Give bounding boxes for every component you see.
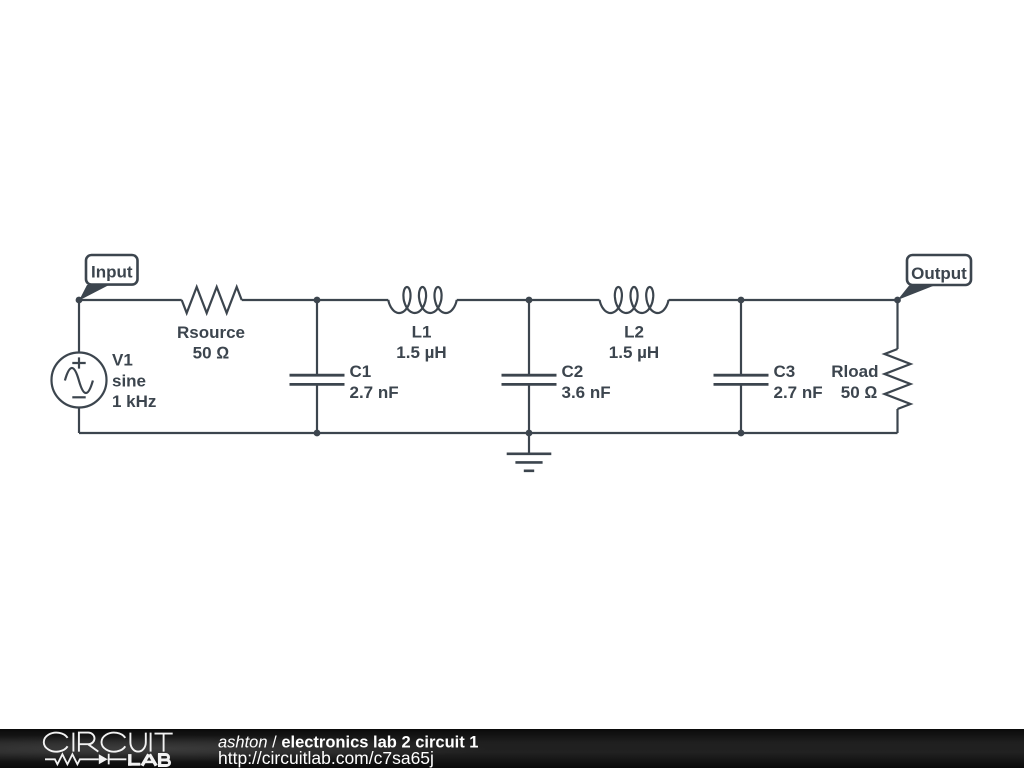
svg-text:http://circuitlab.com/c7sa65j: http://circuitlab.com/c7sa65j bbox=[218, 748, 434, 768]
capacitor C1 bottom lead bbox=[316, 385, 318, 433]
ground symbol bars bbox=[507, 454, 552, 471]
capacitor C3 top lead bbox=[740, 300, 742, 374]
inductor L2 coil bbox=[600, 287, 669, 313]
node dot input bbox=[76, 297, 83, 304]
resistor Rsource body bbox=[182, 287, 242, 313]
inductor L1 coil bbox=[388, 287, 456, 313]
node Output flag bubble bbox=[898, 255, 972, 300]
capacitor C1 top lead bbox=[316, 300, 318, 374]
capacitor C1 plates bbox=[290, 375, 345, 384]
svg-text:1.5 µH: 1.5 µH bbox=[396, 343, 446, 362]
svg-text:1 kHz: 1 kHz bbox=[112, 392, 156, 411]
label C3 value bbox=[774, 362, 823, 402]
capacitor C3 plates bbox=[714, 375, 769, 384]
node dot C1 top bbox=[314, 297, 321, 304]
svg-text:sine: sine bbox=[112, 371, 146, 390]
wire top rail left segment bbox=[79, 299, 182, 301]
node dot output bbox=[894, 297, 901, 304]
node dot C3 top bbox=[738, 297, 745, 304]
svg-text:L1: L1 bbox=[412, 323, 432, 342]
wire left branch lower bbox=[78, 408, 80, 434]
footer url text bbox=[218, 748, 434, 768]
node dot ground junction bbox=[526, 430, 533, 437]
footer title text bbox=[218, 734, 478, 752]
label V1 value bbox=[112, 350, 156, 411]
label L2 value bbox=[609, 323, 659, 363]
wire right branch lower bbox=[896, 409, 898, 433]
svg-text:Rsource: Rsource bbox=[177, 323, 245, 342]
V1 plus sign bbox=[72, 357, 85, 368]
svg-text:C1: C1 bbox=[350, 362, 372, 381]
capacitor C2 bottom lead bbox=[528, 385, 530, 433]
CircuitLab logo LAB letters bbox=[128, 754, 170, 766]
svg-text:2.7 nF: 2.7 nF bbox=[774, 383, 823, 402]
svg-text:2.7 nF: 2.7 nF bbox=[350, 383, 399, 402]
label L1 value bbox=[396, 323, 446, 363]
node dot C2 top bbox=[526, 297, 533, 304]
svg-text:V1: V1 bbox=[112, 350, 133, 369]
capacitor C3 bottom lead bbox=[740, 385, 742, 433]
svg-text:C2: C2 bbox=[562, 362, 584, 381]
footer bar bbox=[0, 729, 1024, 768]
V1 sine wave bbox=[65, 368, 93, 393]
capacitor C2 top lead bbox=[528, 300, 530, 374]
svg-text:3.6 nF: 3.6 nF bbox=[562, 383, 611, 402]
svg-text:Rload: Rload bbox=[831, 362, 878, 381]
svg-text:Input: Input bbox=[91, 263, 133, 282]
wire left branch upper bbox=[78, 300, 80, 353]
label Rsource value bbox=[177, 323, 245, 363]
V1 minus sign bbox=[72, 396, 85, 398]
label C2 value bbox=[562, 362, 611, 402]
wire bottom rail bbox=[79, 432, 898, 434]
svg-text:50 Ω: 50 Ω bbox=[193, 344, 230, 363]
label C1 value bbox=[350, 362, 399, 402]
node dot C3 bottom bbox=[738, 430, 745, 437]
wire top rail between L1 and L2 bbox=[457, 299, 600, 301]
CircuitLab logo resistor-diode line bbox=[45, 754, 126, 765]
label Rload value bbox=[831, 362, 878, 402]
svg-text:C3: C3 bbox=[774, 362, 796, 381]
node Input flag bubble bbox=[79, 255, 138, 301]
resistor Rload body bbox=[885, 349, 911, 409]
wire top rail right segment bbox=[669, 299, 898, 301]
svg-text:50 Ω: 50 Ω bbox=[841, 383, 878, 402]
svg-text:Output: Output bbox=[911, 264, 967, 283]
ground stub bbox=[528, 433, 530, 453]
CircuitLab logo CIRCUIT wordmark bbox=[44, 733, 173, 752]
node dot C1 bottom bbox=[314, 430, 321, 437]
voltage source V1 circle bbox=[52, 353, 107, 408]
capacitor C2 plates bbox=[502, 375, 557, 384]
wire right branch upper bbox=[896, 300, 898, 349]
svg-text:L2: L2 bbox=[624, 323, 644, 342]
wire top rail between Rsource and L1 bbox=[242, 299, 389, 301]
svg-text:1.5 µH: 1.5 µH bbox=[609, 343, 659, 362]
